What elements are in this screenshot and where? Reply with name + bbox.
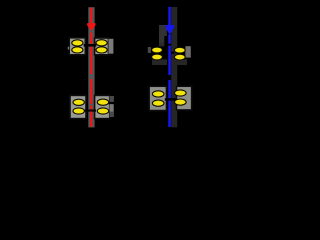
red dashed line segment 5	[90, 112, 92, 127]
atom A3 upper-right cell top	[96, 40, 107, 46]
gray stub right of upper cell	[109, 39, 114, 54]
chain 1 unit cell box upper-left	[69, 38, 85, 55]
chain 1 rod (gray bar)	[88, 7, 94, 127]
blue wave arrow shaft	[168, 7, 171, 26]
dark corner bottom of gray column	[110, 112, 114, 117]
dark block below upper-right right pair	[173, 59, 187, 65]
red dashed line segment 3	[90, 79, 92, 104]
patch above-left faded tail	[159, 43, 164, 47]
dark block below upper-right left pair	[152, 59, 167, 65]
blue dashed line segment 4	[168, 101, 171, 127]
gray nub left of upper cell	[68, 47, 70, 50]
atom A5 lower-left cell top	[73, 99, 84, 105]
atom A6 lower-left cell bottom	[73, 108, 84, 114]
bond upper-right group	[163, 52, 175, 54]
atom A4 upper-right cell bottom	[96, 47, 107, 53]
atom B8 lower-right group right bottom	[175, 99, 187, 105]
atom A1 upper-left cell top	[72, 40, 83, 46]
bond lower-right group	[165, 98, 176, 100]
red dashed line segment 4	[90, 106, 92, 110]
red dashed line segment 1	[90, 33, 92, 45]
nub left of upper-right cell	[148, 47, 151, 53]
gray stub right of upper-right cell	[185, 46, 190, 57]
chain 2 unit cell box lower-right	[177, 86, 192, 110]
patch above-left lower part	[159, 36, 164, 43]
atom B2 upper-right group left bottom	[152, 54, 163, 60]
patch above-left of upper-right cell	[159, 25, 167, 36]
atom B6 lower-right group left bottom	[152, 100, 164, 106]
chain 1 unit cell box upper-right	[95, 38, 109, 55]
atom B5 lower-right group left top	[152, 91, 164, 97]
atom B1 upper-right group left top	[152, 47, 163, 53]
red wave arrow shaft	[90, 8, 92, 24]
bond stub right at atom row level	[109, 102, 117, 104]
dark corner top of gray column	[110, 96, 114, 102]
atom A2 upper-left cell bottom	[72, 47, 83, 53]
atom A8 lower-right cell bottom	[97, 108, 108, 114]
bond lower group	[84, 110, 96, 112]
red dashed line segment 2	[90, 47, 92, 74]
chain 1 unit cell box lower-right	[95, 95, 110, 118]
atom B7 lower-right group right top	[175, 90, 187, 96]
blue dashed line segment 1	[168, 35, 171, 44]
atom B3 upper-right group right top	[174, 47, 185, 53]
atom A7 lower-right cell top	[97, 99, 108, 105]
blue wave arrow head	[165, 25, 174, 35]
blue dashed line segment 3	[168, 80, 171, 98]
bond upper group	[84, 44, 97, 47]
atom B4 upper-right group right bottom	[174, 54, 185, 60]
red wave arrow head	[87, 23, 95, 31]
blue dashed line segment 2	[168, 46, 171, 76]
chain 1 unit cell box lower-left	[70, 95, 86, 118]
chain 2 rod (dark bar)	[171, 7, 177, 127]
chain 2 unit cell box lower-left	[149, 86, 166, 110]
gray column right of lower cell	[110, 96, 114, 117]
